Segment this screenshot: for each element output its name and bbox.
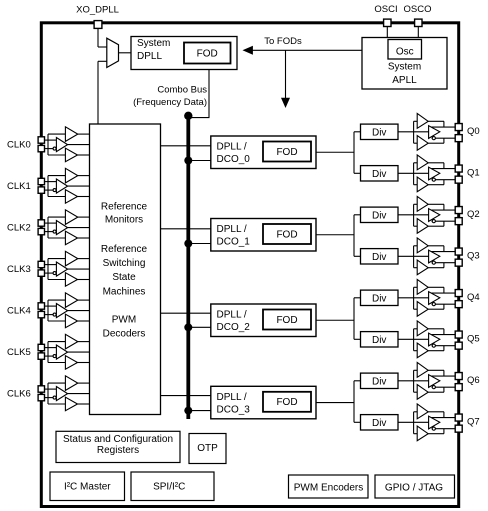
svg-text:DPLL /: DPLL / (217, 224, 247, 235)
svg-text:State: State (112, 272, 136, 283)
svg-text:CLK0: CLK0 (7, 140, 31, 151)
svg-text:FOD: FOD (197, 48, 218, 59)
svg-text:Q5: Q5 (467, 334, 480, 345)
svg-text:(Frequency Data): (Frequency Data) (133, 97, 207, 108)
svg-text:CLK5: CLK5 (7, 347, 31, 358)
svg-text:CLK3: CLK3 (7, 264, 31, 275)
svg-text:DCO_2: DCO_2 (217, 322, 251, 333)
svg-text:DCO_3: DCO_3 (217, 404, 251, 415)
svg-text:DCO_0: DCO_0 (217, 154, 251, 165)
svg-text:CLK6: CLK6 (7, 389, 31, 400)
svg-text:Div: Div (372, 252, 386, 263)
svg-text:I²C Master: I²C Master (64, 482, 111, 493)
svg-text:FOD: FOD (276, 147, 297, 158)
svg-text:APLL: APLL (392, 75, 417, 86)
svg-text:OSCO: OSCO (404, 4, 432, 15)
svg-text:System: System (388, 61, 421, 72)
svg-text:Osc: Osc (396, 47, 414, 58)
svg-text:PWM Encoders: PWM Encoders (294, 483, 363, 494)
svg-text:Q4: Q4 (467, 292, 480, 303)
svg-text:Div: Div (372, 293, 386, 304)
svg-text:OSCI: OSCI (374, 4, 397, 15)
svg-text:Registers: Registers (97, 445, 139, 456)
svg-text:Div: Div (372, 127, 386, 138)
svg-text:Q1: Q1 (467, 168, 480, 179)
svg-text:XO_DPLL: XO_DPLL (76, 5, 119, 16)
svg-text:Q6: Q6 (467, 375, 480, 386)
svg-text:FOD: FOD (276, 229, 297, 240)
svg-text:Reference: Reference (101, 201, 148, 212)
svg-text:Div: Div (372, 210, 386, 221)
svg-text:PWM: PWM (112, 315, 136, 326)
svg-text:DCO_1: DCO_1 (217, 237, 251, 248)
svg-text:FOD: FOD (276, 397, 297, 408)
svg-text:DPLL /: DPLL / (217, 142, 247, 153)
svg-text:Combo Bus: Combo Bus (157, 85, 207, 96)
svg-text:Machines: Machines (103, 286, 146, 297)
svg-text:Switching: Switching (103, 258, 146, 269)
svg-text:Q0: Q0 (467, 126, 480, 137)
svg-text:Reference: Reference (101, 244, 148, 255)
svg-text:Monitors: Monitors (105, 215, 143, 226)
svg-text:CLK2: CLK2 (7, 223, 31, 234)
svg-text:CLK4: CLK4 (7, 306, 31, 317)
svg-text:To FODs: To FODs (264, 36, 302, 47)
svg-text:DPLL /: DPLL / (217, 392, 247, 403)
svg-text:Decoders: Decoders (103, 329, 146, 340)
svg-text:Q3: Q3 (467, 251, 480, 262)
svg-text:FOD: FOD (276, 315, 297, 326)
svg-text:SPI/I²C: SPI/I²C (153, 482, 185, 493)
svg-text:Q2: Q2 (467, 209, 480, 220)
svg-text:GPIO / JTAG: GPIO / JTAG (385, 483, 443, 494)
svg-text:Q7: Q7 (467, 417, 480, 428)
svg-text:Div: Div (372, 418, 386, 429)
svg-text:DPLL /: DPLL / (217, 310, 247, 321)
svg-text:Div: Div (372, 376, 386, 387)
svg-text:System: System (137, 38, 170, 49)
svg-text:Div: Div (372, 169, 386, 180)
svg-text:CLK1: CLK1 (7, 181, 31, 192)
svg-text:Div: Div (372, 335, 386, 346)
svg-text:Status and Configuration: Status and Configuration (63, 434, 173, 445)
svg-text:DPLL: DPLL (137, 51, 162, 62)
svg-text:OTP: OTP (197, 443, 218, 454)
